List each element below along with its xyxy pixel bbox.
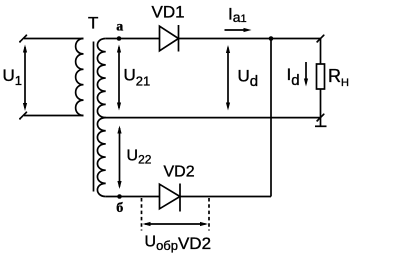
terminal tick bottom input <box>19 111 27 119</box>
resistor RH <box>317 64 325 89</box>
wire VD2 to corner <box>180 196 271 198</box>
junction dot top node <box>269 36 274 41</box>
diode VD1 <box>160 25 179 52</box>
svg-text:Ud: Ud <box>238 67 259 91</box>
wire bottom input to primary <box>24 115 84 117</box>
transformer T core <box>93 42 95 192</box>
ground symbol <box>315 118 327 127</box>
transformer primary winding <box>76 39 84 116</box>
node b junction dot <box>117 194 122 199</box>
current arrow Ia1 <box>225 28 252 32</box>
dashed line right (VD2 cathode) <box>208 198 210 231</box>
svg-text:Ia1: Ia1 <box>228 5 247 26</box>
svg-text:VD2: VD2 <box>164 164 195 181</box>
svg-text:б: б <box>116 201 123 216</box>
dimension arrow UobrVD2 <box>143 222 209 226</box>
voltage arrow U21 <box>117 45 121 111</box>
svg-text:U21: U21 <box>124 66 151 89</box>
transformer secondary winding U22 <box>97 118 105 197</box>
node a junction dot <box>117 36 122 41</box>
voltage arrow U1 <box>23 45 27 112</box>
wire top input to primary <box>24 38 84 40</box>
svg-text:U22: U22 <box>127 148 152 167</box>
terminal tick top input <box>19 34 27 42</box>
svg-text:T: T <box>88 14 98 33</box>
dashed line left (VD2 anode) <box>141 198 143 231</box>
wire VD1 to load top <box>179 38 321 40</box>
wire node a to VD1 <box>106 38 160 40</box>
wire load bottom lead <box>320 89 322 118</box>
svg-text:RH: RH <box>328 66 349 89</box>
svg-text:VD1: VD1 <box>152 3 185 22</box>
voltage arrow Ud <box>226 45 230 111</box>
wire center tap to load bottom <box>106 117 321 119</box>
svg-text:U1: U1 <box>3 66 23 88</box>
wire load top lead <box>320 39 322 65</box>
current arrow Id <box>304 62 308 87</box>
transformer secondary winding U21 <box>97 39 105 118</box>
svg-text:a: a <box>116 20 123 35</box>
svg-text:UобрVD2: UобрVD2 <box>145 234 212 254</box>
terminal tick load bottom <box>316 113 324 121</box>
voltage arrow U22 <box>117 126 121 190</box>
diode VD2 <box>160 184 181 212</box>
wire node b to VD2 <box>106 196 160 198</box>
svg-text:Id: Id <box>287 65 300 89</box>
terminal tick load top <box>316 34 324 42</box>
wire vertical VD2 cathode to top node <box>270 39 272 197</box>
